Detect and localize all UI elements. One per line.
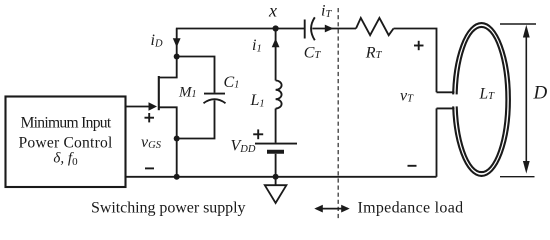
svg-text:Switching power supply: Switching power supply bbox=[91, 200, 245, 217]
transistor M1 drain stub bbox=[159, 57, 177, 78]
coil LT outer ellipse bbox=[453, 23, 510, 176]
dimension D arrow line bbox=[525, 33, 527, 167]
vGS minus sign bbox=[145, 167, 154, 169]
transistor M1 source stub bbox=[159, 107, 177, 177]
battery VDD short plate bbox=[267, 150, 284, 154]
caption double arrow bbox=[316, 208, 348, 210]
wire top rail bbox=[176, 28, 305, 30]
dimension D top arrowhead bbox=[523, 25, 530, 38]
node source-rail dot bbox=[174, 174, 180, 180]
wire right rail lower bbox=[436, 108, 438, 176]
svg-text:Minimum Input: Minimum Input bbox=[20, 114, 111, 131]
vGS plus sign bbox=[145, 117, 155, 119]
svg-text:Power Control: Power Control bbox=[19, 135, 113, 152]
svg-text:D: D bbox=[533, 83, 548, 104]
inductor L1 coil bbox=[276, 81, 282, 109]
dashed separator line bbox=[337, 8, 339, 220]
coil LT terminal gap mask bbox=[444, 94, 460, 106]
port top stub bbox=[437, 91, 455, 93]
wire L1 branch bbox=[275, 29, 277, 81]
capacitor CT curved plate bbox=[311, 17, 315, 40]
ground triangle bbox=[265, 185, 287, 203]
resistor RT zigzag bbox=[356, 18, 394, 35]
wire CT to RT bbox=[312, 28, 356, 30]
wire battery to rail bbox=[275, 154, 277, 177]
ground stub bbox=[275, 177, 277, 185]
node drain dot bbox=[174, 54, 180, 60]
svg-text:Impedance load: Impedance load bbox=[358, 200, 464, 217]
control box "Minimum Input Power Control" bbox=[6, 97, 126, 188]
vT plus sign bbox=[414, 45, 424, 47]
node x dot bbox=[273, 25, 279, 31]
wire coil to battery bbox=[275, 109, 277, 143]
VDD plus sign bbox=[253, 133, 263, 135]
capacitor C1 flat plate bbox=[204, 93, 225, 95]
capacitor C1 curved plate bbox=[204, 99, 226, 103]
capacitor C1 bottom branch wire bbox=[177, 100, 215, 138]
node ground dot bbox=[273, 174, 279, 180]
node source dot bbox=[174, 136, 180, 142]
arrow i1 (up) bbox=[272, 38, 280, 47]
battery VDD long plate bbox=[255, 143, 297, 145]
capacitor C1 top branch wire bbox=[177, 57, 215, 93]
dimension D top extension line bbox=[500, 23, 536, 25]
vT minus sign bbox=[408, 165, 417, 167]
transistor M1 body bar bbox=[158, 76, 160, 110]
port bottom stub bbox=[437, 107, 455, 109]
wire bottom rail bbox=[126, 176, 437, 178]
wire gate from box bbox=[126, 106, 150, 108]
gate arrowhead bbox=[149, 102, 158, 111]
capacitor CT flat plate bbox=[304, 20, 306, 39]
arrow iD (down) bbox=[173, 38, 181, 47]
coil LT inner ellipse bbox=[457, 27, 507, 172]
wire RT to right rail bbox=[394, 29, 437, 93]
dimension D bottom arrowhead bbox=[523, 161, 530, 174]
arrow iT (right) bbox=[325, 25, 334, 33]
wire drain to top rail bbox=[176, 29, 178, 57]
svg-text:x: x bbox=[268, 0, 277, 20]
dimension D bottom extension line bbox=[500, 176, 535, 178]
